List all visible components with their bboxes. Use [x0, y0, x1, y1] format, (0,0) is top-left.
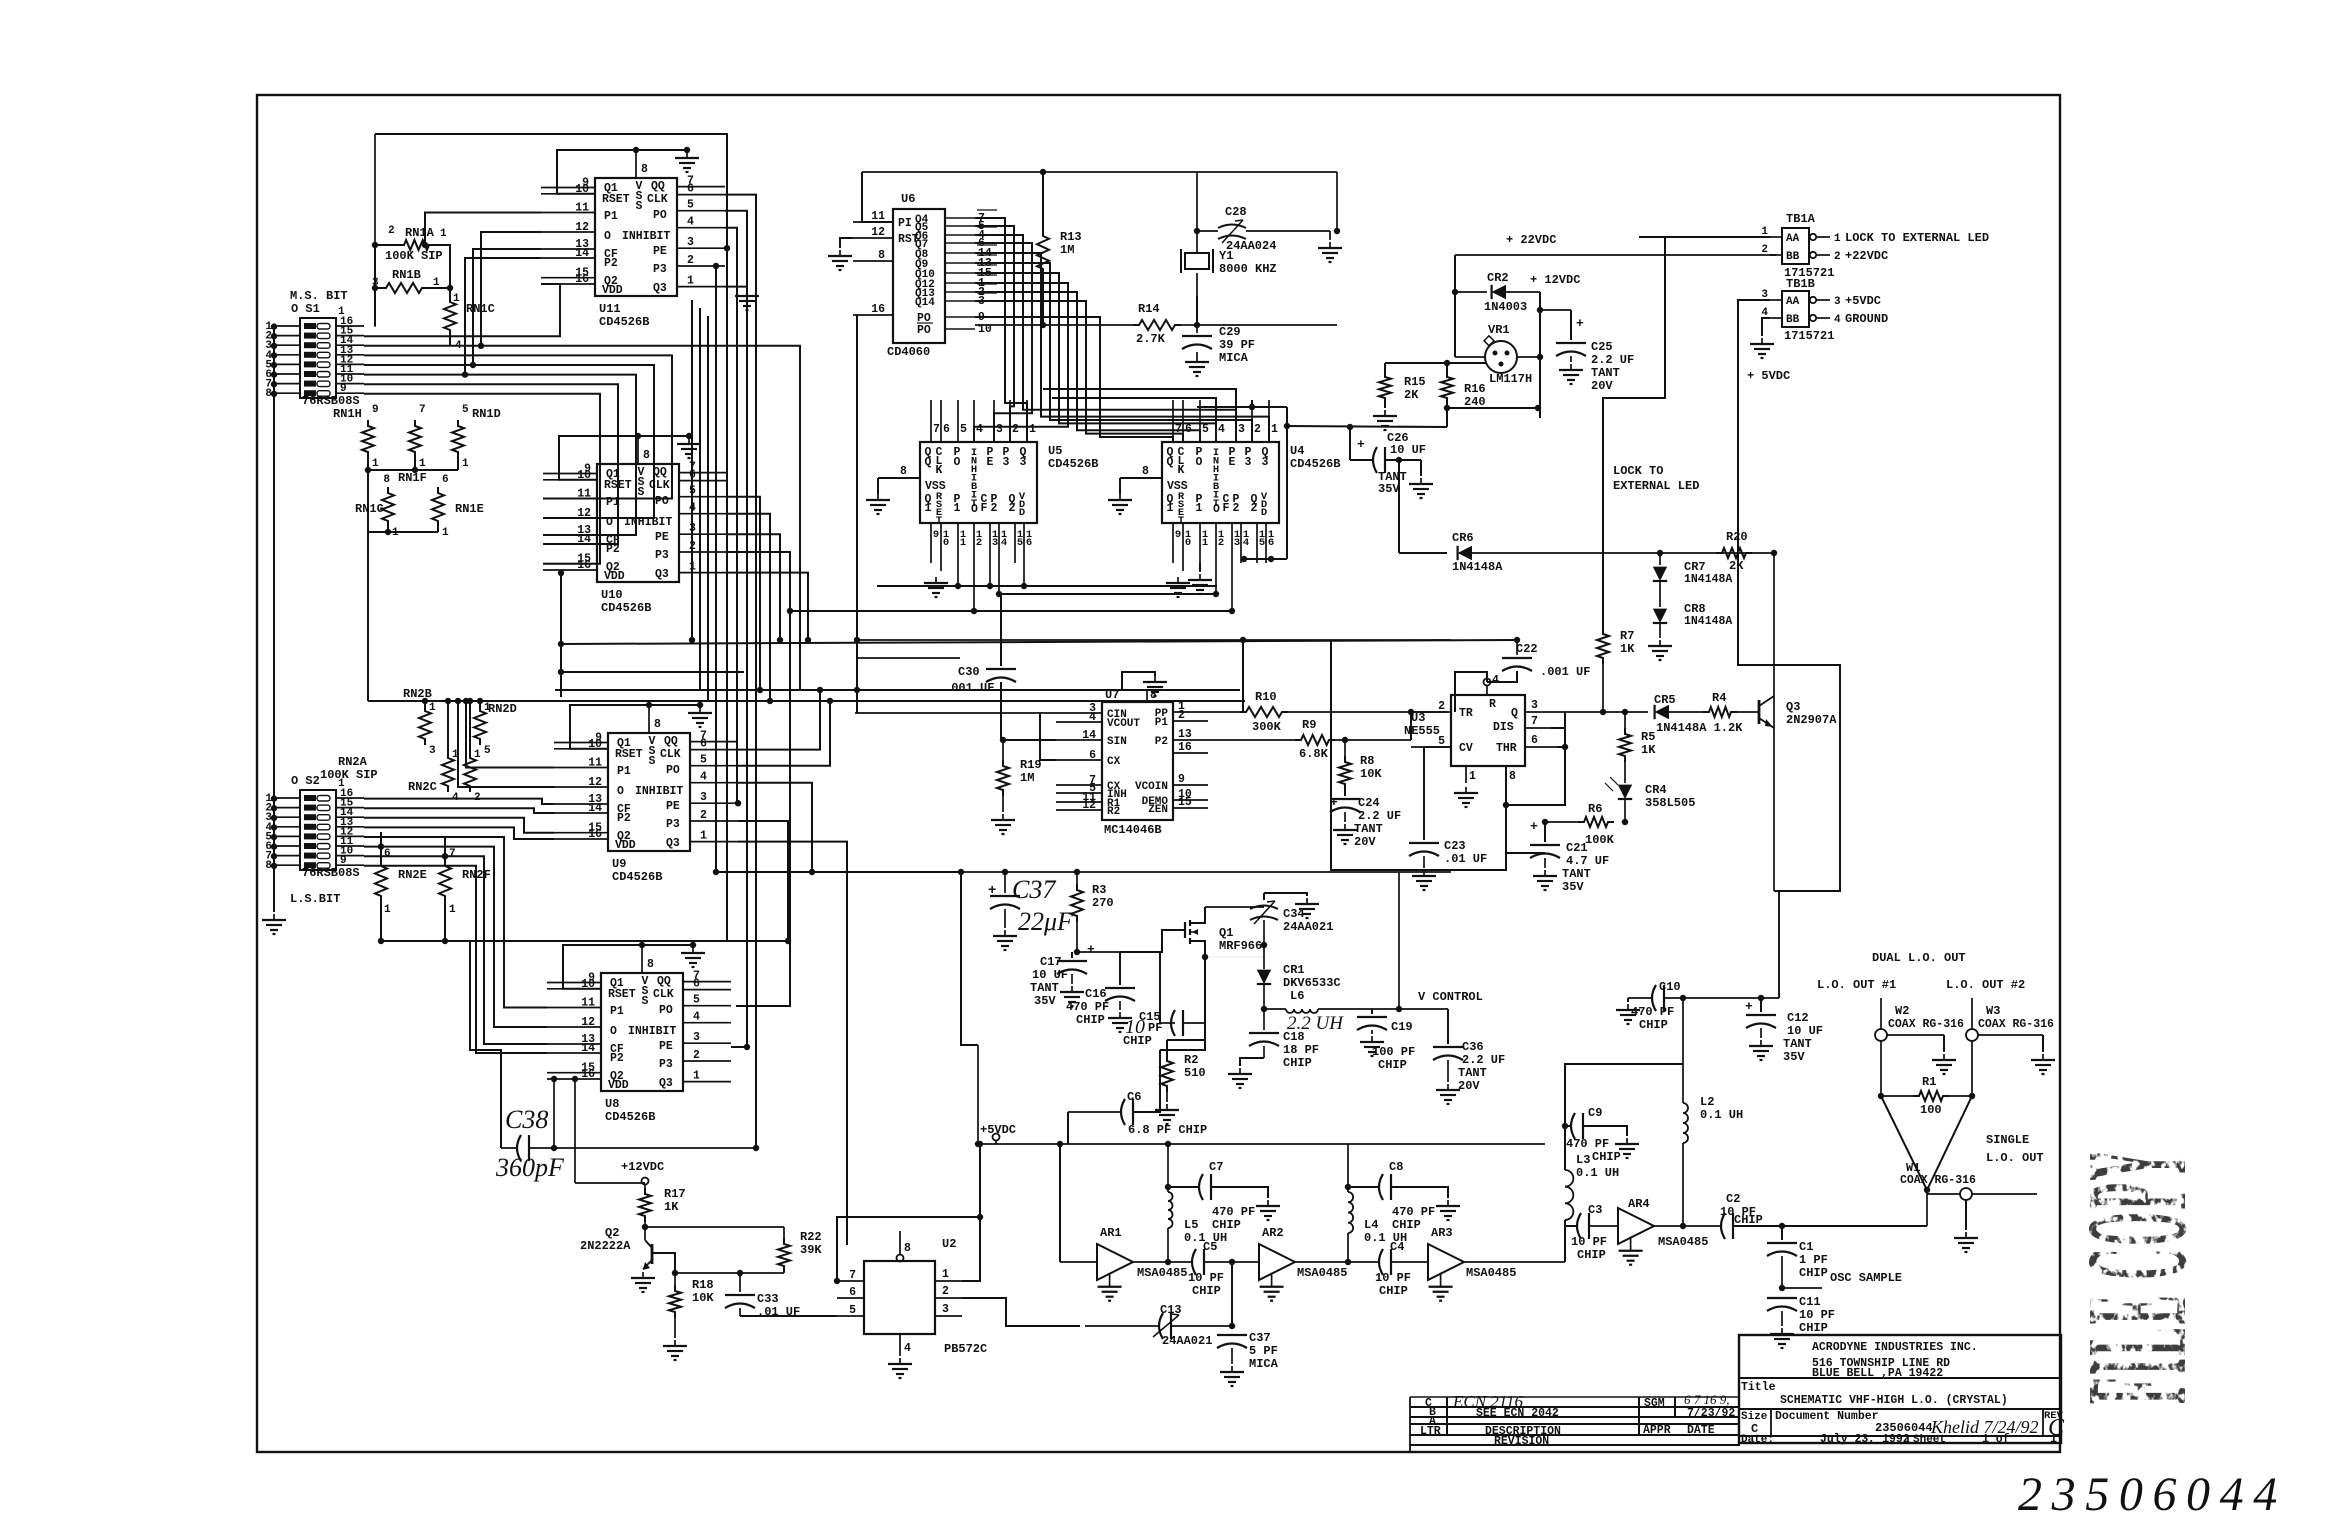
svg-text:Q: Q — [1167, 456, 1174, 469]
svg-text:AA: AA — [1786, 296, 1800, 308]
svg-text:TANT: TANT — [1030, 981, 1059, 995]
svg-text:O: O — [954, 456, 961, 469]
svg-text:DATE: DATE — [1687, 1424, 1715, 1437]
svg-text:2: 2 — [991, 502, 998, 515]
svg-text:CHIP: CHIP — [1378, 1058, 1407, 1072]
svg-text:R18: R18 — [692, 1278, 714, 1292]
svg-text:C10: C10 — [1659, 980, 1681, 994]
svg-text:R2: R2 — [1184, 1053, 1198, 1067]
svg-text:CD4060: CD4060 — [887, 345, 930, 359]
svg-text:1N4148A 1.2K: 1N4148A 1.2K — [1656, 721, 1743, 735]
svg-text:TANT: TANT — [1354, 822, 1383, 836]
svg-text:R19: R19 — [1020, 758, 1042, 772]
svg-text:CHIP: CHIP — [1799, 1266, 1828, 1280]
svg-text:1: 1 — [1202, 537, 1208, 549]
svg-text:P3: P3 — [659, 1058, 673, 1071]
svg-text:Q3: Q3 — [1786, 700, 1800, 714]
svg-text:16: 16 — [871, 303, 885, 316]
svg-text:16: 16 — [581, 1068, 595, 1081]
svg-text:12: 12 — [871, 226, 885, 239]
svg-text:QQ: QQ — [651, 180, 665, 193]
svg-text:MICA: MICA — [1249, 1357, 1279, 1371]
svg-text:CD4526B: CD4526B — [612, 870, 662, 884]
svg-text:P2: P2 — [617, 812, 631, 825]
svg-text:1: 1 — [960, 537, 966, 549]
svg-text:24AA021: 24AA021 — [1162, 1334, 1212, 1348]
svg-text:CHIP: CHIP — [1076, 1013, 1105, 1027]
svg-text:Q1: Q1 — [1219, 926, 1233, 940]
svg-text:2N2907A: 2N2907A — [1786, 713, 1837, 727]
svg-text:CR4: CR4 — [1645, 783, 1667, 797]
svg-text:300K: 300K — [1252, 720, 1282, 734]
svg-text:VCOUT: VCOUT — [1107, 718, 1140, 730]
svg-text:2: 2 — [1178, 709, 1185, 722]
svg-text:3: 3 — [1245, 456, 1252, 469]
svg-text:CLK: CLK — [660, 748, 681, 761]
svg-text:CHIP: CHIP — [1639, 1018, 1668, 1032]
svg-text:+22VDC: +22VDC — [1845, 249, 1888, 263]
svg-text:C16: C16 — [1085, 987, 1107, 1001]
svg-text:R: R — [1489, 698, 1496, 711]
svg-text:+: + — [1357, 437, 1365, 452]
svg-text:CR7: CR7 — [1684, 560, 1706, 574]
svg-text:270: 270 — [1092, 896, 1114, 910]
svg-text:LTR: LTR — [1420, 1425, 1441, 1438]
svg-text:1K: 1K — [664, 1200, 679, 1214]
svg-text:CHIP: CHIP — [1392, 1218, 1421, 1232]
svg-text:July 23, 1992: July 23, 1992 — [1820, 1433, 1910, 1446]
svg-text:P1: P1 — [617, 765, 631, 778]
svg-text:C5: C5 — [1203, 1240, 1217, 1254]
svg-text:TB1B: TB1B — [1786, 277, 1815, 291]
svg-text:TANT: TANT — [1562, 867, 1591, 881]
svg-text:C22: C22 — [1516, 642, 1538, 656]
svg-text:8: 8 — [904, 1242, 911, 1255]
svg-text:RN2D: RN2D — [488, 702, 517, 716]
svg-text:SEE ECN 2042: SEE ECN 2042 — [1476, 1407, 1559, 1420]
svg-text:2K: 2K — [1729, 559, 1744, 573]
svg-text:CHIP: CHIP — [1799, 1321, 1828, 1335]
svg-text:S: S — [649, 755, 656, 768]
svg-text:C1: C1 — [1799, 1240, 1813, 1254]
svg-text:10 UF: 10 UF — [1787, 1024, 1823, 1038]
svg-text:REVISION: REVISION — [1494, 1435, 1549, 1448]
svg-text:2: 2 — [1254, 423, 1261, 436]
svg-text:EXTERNAL LED: EXTERNAL LED — [1613, 479, 1699, 493]
svg-text:Q3: Q3 — [655, 568, 669, 581]
svg-text:QQ: QQ — [653, 466, 667, 479]
svg-text:8: 8 — [654, 718, 661, 731]
svg-text:COAX RG-316: COAX RG-316 — [1888, 1018, 1964, 1031]
svg-text:4: 4 — [1492, 674, 1499, 687]
svg-text:K: K — [936, 464, 943, 477]
svg-text:7: 7 — [419, 404, 426, 416]
svg-text:2N2222A: 2N2222A — [580, 1239, 631, 1253]
svg-text:+: + — [1330, 795, 1338, 810]
svg-text:Q2: Q2 — [605, 1226, 619, 1240]
svg-text:1: 1 — [1167, 502, 1174, 515]
svg-text:R3: R3 — [1092, 883, 1106, 897]
svg-text:7/23/92: 7/23/92 — [1687, 1407, 1735, 1420]
svg-text:W1: W1 — [1906, 1161, 1920, 1175]
svg-text:CHIP: CHIP — [1577, 1248, 1606, 1262]
svg-text:CLK: CLK — [649, 479, 670, 492]
svg-text:MSA0485: MSA0485 — [1137, 1266, 1187, 1280]
svg-text:R9: R9 — [1302, 718, 1316, 732]
svg-text:10K: 10K — [692, 1291, 714, 1305]
svg-text:3: 3 — [700, 791, 707, 804]
svg-text:O: O — [1196, 456, 1203, 469]
svg-text:2.7K: 2.7K — [1136, 332, 1166, 346]
svg-text:+: + — [988, 883, 996, 899]
svg-text:1: 1 — [2050, 1433, 2057, 1446]
svg-text:C7: C7 — [1209, 1160, 1223, 1174]
svg-text:CHIP: CHIP — [1734, 1213, 1763, 1227]
svg-text:39 PF: 39 PF — [1219, 338, 1255, 352]
svg-text:2: 2 — [700, 809, 707, 822]
svg-text:3: 3 — [1262, 456, 1269, 469]
svg-text:CLK: CLK — [647, 193, 668, 206]
svg-text:MC14046B: MC14046B — [1104, 823, 1162, 837]
svg-text:5: 5 — [700, 754, 707, 767]
svg-text:R22: R22 — [800, 1230, 822, 1244]
svg-text:20V: 20V — [1591, 379, 1613, 393]
svg-text:L5: L5 — [1184, 1218, 1198, 1232]
svg-text:1: 1 — [429, 702, 436, 714]
svg-text:3: 3 — [996, 423, 1003, 436]
svg-text:1K: 1K — [1641, 743, 1656, 757]
svg-text:+: + — [1087, 942, 1095, 957]
svg-text:VDD: VDD — [608, 1079, 629, 1092]
svg-text:10 PF: 10 PF — [1799, 1308, 1835, 1322]
svg-text:2K: 2K — [1404, 388, 1419, 402]
svg-text:RN2A: RN2A — [338, 755, 368, 769]
svg-text:L4: L4 — [1364, 1218, 1378, 1232]
svg-text:510: 510 — [1184, 1066, 1206, 1080]
svg-text:15: 15 — [1178, 796, 1192, 809]
svg-text:CD4526B: CD4526B — [1048, 457, 1098, 471]
svg-text:8: 8 — [1509, 770, 1516, 783]
svg-text:C21: C21 — [1566, 841, 1588, 855]
svg-text:4: 4 — [1243, 537, 1249, 549]
svg-text:R17: R17 — [664, 1187, 686, 1201]
svg-text:100 PF: 100 PF — [1372, 1045, 1415, 1059]
svg-text:RN2C: RN2C — [408, 780, 437, 794]
svg-text:AR4: AR4 — [1628, 1197, 1650, 1211]
svg-text:1 of: 1 of — [1982, 1433, 2010, 1446]
svg-text:22μF: 22μF — [1018, 907, 1074, 936]
svg-text:8000 KHZ: 8000 KHZ — [1219, 262, 1277, 276]
svg-text:35V: 35V — [1562, 880, 1584, 894]
svg-text:76RSB08S: 76RSB08S — [302, 866, 360, 880]
svg-text:BLUE BELL ,PA 19422: BLUE BELL ,PA 19422 — [1812, 1367, 1943, 1380]
svg-text:6: 6 — [1531, 734, 1538, 747]
svg-text:GROUND: GROUND — [1845, 312, 1888, 326]
svg-text:1 PF: 1 PF — [1799, 1253, 1828, 1267]
svg-text:MSA0485: MSA0485 — [1297, 1266, 1347, 1280]
svg-text:C23: C23 — [1444, 839, 1466, 853]
svg-text:L.O. OUT: L.O. OUT — [1986, 1151, 2044, 1165]
svg-text:1: 1 — [440, 228, 447, 240]
svg-text:5 PF: 5 PF — [1249, 1344, 1278, 1358]
svg-text:1K: 1K — [1620, 642, 1635, 656]
svg-text:U2: U2 — [942, 1237, 956, 1251]
svg-text:PE: PE — [653, 245, 667, 258]
svg-text:5: 5 — [849, 1304, 856, 1317]
svg-text:1: 1 — [449, 904, 456, 916]
svg-text:8: 8 — [1142, 465, 1149, 478]
svg-text:9: 9 — [1178, 773, 1185, 786]
svg-text:2: 2 — [693, 1049, 700, 1062]
svg-text:DKV6533C: DKV6533C — [1283, 976, 1341, 990]
svg-text:R14: R14 — [1138, 302, 1160, 316]
svg-text:6: 6 — [700, 738, 707, 751]
svg-text:1: 1 — [1029, 423, 1036, 436]
svg-text:Date:: Date: — [1741, 1434, 1774, 1446]
svg-text:C38: C38 — [505, 1105, 548, 1134]
svg-text:76RSB08S: 76RSB08S — [302, 394, 360, 408]
svg-text:1: 1 — [462, 458, 469, 470]
svg-text:1: 1 — [1834, 233, 1841, 245]
svg-text:L3: L3 — [1576, 1153, 1590, 1167]
svg-text:O S2: O S2 — [291, 774, 320, 788]
svg-text:D: D — [1019, 507, 1025, 519]
svg-text:1: 1 — [687, 275, 694, 288]
svg-text:F: F — [981, 502, 988, 515]
svg-text:2: 2 — [388, 225, 395, 237]
svg-text:2: 2 — [1233, 502, 1240, 515]
svg-text:1N4003: 1N4003 — [1484, 300, 1527, 314]
svg-text:Q14: Q14 — [915, 297, 935, 309]
svg-text:100K: 100K — [1585, 833, 1615, 847]
svg-text:2: 2 — [1251, 502, 1258, 515]
svg-text:Title: Title — [1741, 1381, 1776, 1394]
svg-text:M.S. BIT: M.S. BIT — [290, 289, 348, 303]
svg-text:1N4148A: 1N4148A — [1452, 560, 1503, 574]
svg-text:1: 1 — [925, 502, 932, 515]
svg-text:0.1 UH: 0.1 UH — [1700, 1108, 1743, 1122]
svg-text:3: 3 — [687, 236, 694, 249]
svg-text:2: 2 — [1761, 244, 1768, 256]
svg-text:6: 6 — [849, 1286, 856, 1299]
svg-text:PO: PO — [659, 1004, 673, 1017]
svg-text:O: O — [604, 230, 611, 243]
svg-text:P2: P2 — [604, 257, 618, 270]
svg-text:E: E — [987, 456, 994, 469]
svg-text:INHIBIT: INHIBIT — [628, 1025, 676, 1038]
svg-text:CR8: CR8 — [1684, 602, 1706, 616]
svg-text:RSET: RSET — [602, 193, 630, 206]
svg-text:.001 UF: .001 UF — [1540, 665, 1590, 679]
svg-text:DIS: DIS — [1493, 721, 1514, 734]
svg-text:APPR: APPR — [1643, 1424, 1671, 1437]
svg-text:20V: 20V — [1354, 835, 1376, 849]
svg-text:C12: C12 — [1787, 1011, 1809, 1025]
svg-text:PF: PF — [1148, 1021, 1162, 1035]
svg-text:0: 0 — [1185, 537, 1191, 549]
svg-text:LOCK TO EXTERNAL LED: LOCK TO EXTERNAL LED — [1845, 231, 1989, 245]
svg-text:CD4526B: CD4526B — [1290, 457, 1340, 471]
svg-text:14: 14 — [588, 802, 602, 815]
svg-text:CD4526B: CD4526B — [601, 601, 651, 615]
svg-text:2: 2 — [1834, 251, 1841, 263]
svg-text:K: K — [1178, 464, 1185, 477]
svg-text:TANT: TANT — [1783, 1037, 1812, 1051]
svg-text:CR5: CR5 — [1654, 693, 1676, 707]
svg-text:3: 3 — [1020, 456, 1027, 469]
svg-text:10 UF: 10 UF — [1390, 443, 1426, 457]
svg-text:C11: C11 — [1799, 1295, 1821, 1309]
svg-text:ACRODYNE INDUSTRIES INC.: ACRODYNE INDUSTRIES INC. — [1812, 1341, 1978, 1354]
svg-text:Q3: Q3 — [659, 1077, 673, 1090]
svg-text:8: 8 — [643, 449, 650, 462]
svg-text:4: 4 — [1089, 711, 1096, 724]
svg-text:P3: P3 — [666, 818, 680, 831]
svg-text:+: + — [1530, 819, 1538, 834]
svg-text:U9: U9 — [612, 857, 626, 871]
svg-text:6: 6 — [1089, 749, 1096, 762]
svg-text:24AA021: 24AA021 — [1283, 920, 1333, 934]
svg-text:4: 4 — [1834, 314, 1841, 326]
svg-text:CD4526B: CD4526B — [599, 315, 649, 329]
svg-text:6: 6 — [1268, 537, 1274, 549]
svg-text:1: 1 — [384, 904, 391, 916]
svg-text:13: 13 — [1178, 728, 1192, 741]
svg-text:PO: PO — [917, 324, 931, 337]
svg-text:BB: BB — [1786, 314, 1800, 326]
svg-text:Q3: Q3 — [666, 837, 680, 850]
svg-text:7: 7 — [449, 848, 456, 860]
svg-text:2.2 UF: 2.2 UF — [1591, 353, 1634, 367]
svg-text:LOCK TO: LOCK TO — [1613, 464, 1663, 478]
svg-text:MICA: MICA — [1219, 351, 1249, 365]
svg-text:6: 6 — [687, 183, 694, 196]
svg-text:SGM: SGM — [1644, 1397, 1665, 1410]
svg-text:L.S.BIT: L.S.BIT — [290, 892, 340, 906]
svg-text:1M: 1M — [1020, 771, 1034, 785]
svg-text:U6: U6 — [901, 192, 915, 206]
svg-text:C37: C37 — [1012, 875, 1056, 904]
svg-text:2.2 UF: 2.2 UF — [1358, 809, 1401, 823]
svg-text:C4: C4 — [1390, 1240, 1404, 1254]
svg-text:R2: R2 — [1107, 806, 1120, 818]
svg-text:7: 7 — [849, 1269, 856, 1282]
svg-text:V CONTROL: V CONTROL — [1418, 990, 1483, 1004]
svg-text:35V: 35V — [1378, 482, 1400, 496]
svg-text:+12VDC: +12VDC — [621, 1160, 664, 1174]
svg-text:9: 9 — [933, 529, 939, 541]
svg-text:L2: L2 — [1700, 1095, 1714, 1109]
svg-text:CHIP: CHIP — [1212, 1218, 1241, 1232]
svg-text:SINGLE: SINGLE — [1986, 1133, 2029, 1147]
svg-text:8: 8 — [900, 465, 907, 478]
svg-text:5: 5 — [1259, 537, 1265, 549]
svg-text:8: 8 — [383, 474, 390, 486]
svg-text:R7: R7 — [1620, 629, 1634, 643]
svg-text:R4: R4 — [1712, 691, 1726, 705]
svg-text:CHIP: CHIP — [1379, 1284, 1408, 1298]
svg-text:Q3: Q3 — [653, 282, 667, 295]
svg-text:S: S — [638, 486, 645, 499]
svg-text:C36: C36 — [1462, 1040, 1484, 1054]
svg-text:2: 2 — [1012, 423, 1019, 436]
svg-text:+5VDC: +5VDC — [1845, 294, 1881, 308]
svg-text:VR1: VR1 — [1488, 323, 1510, 337]
svg-text:CR1: CR1 — [1283, 963, 1305, 977]
svg-text:FILE COPY: FILE COPY — [2058, 1147, 2218, 1404]
svg-text:+: + — [1745, 999, 1753, 1014]
svg-text:RSET: RSET — [615, 748, 643, 761]
svg-text:3: 3 — [1003, 456, 1010, 469]
svg-text:Q: Q — [925, 456, 932, 469]
svg-text:.01 UF: .01 UF — [757, 1305, 800, 1319]
svg-text:U4: U4 — [1290, 444, 1304, 458]
svg-text:470 PF: 470 PF — [1566, 1137, 1609, 1151]
svg-text:D: D — [1261, 507, 1267, 519]
svg-text:RN2B: RN2B — [403, 687, 432, 701]
svg-text:1: 1 — [372, 458, 379, 470]
svg-text:COAX RG-316: COAX RG-316 — [1978, 1018, 2054, 1031]
svg-text:NE555: NE555 — [1404, 724, 1440, 738]
svg-text:PO: PO — [655, 495, 669, 508]
svg-text:THR: THR — [1496, 742, 1517, 755]
svg-text:Document Number: Document Number — [1775, 1410, 1879, 1423]
svg-text:1: 1 — [338, 306, 345, 318]
svg-text:2: 2 — [1009, 502, 1016, 515]
svg-text:3: 3 — [693, 1031, 700, 1044]
svg-text:C33: C33 — [757, 1292, 779, 1306]
svg-text:3: 3 — [429, 745, 436, 757]
svg-text:PO: PO — [666, 764, 680, 777]
svg-text:3: 3 — [1531, 699, 1538, 712]
svg-text:11: 11 — [575, 202, 589, 215]
svg-text:L.O. OUT #2: L.O. OUT #2 — [1946, 978, 2025, 992]
svg-text:1715721: 1715721 — [1784, 329, 1834, 343]
svg-text:6.8K: 6.8K — [1299, 747, 1329, 761]
svg-text:1: 1 — [1469, 770, 1476, 783]
svg-text:+ 12VDC: + 12VDC — [1530, 273, 1580, 287]
svg-text:S: S — [636, 200, 643, 213]
svg-text:20V: 20V — [1458, 1079, 1480, 1093]
svg-text:C2: C2 — [1726, 1192, 1740, 1206]
svg-text:5: 5 — [462, 404, 469, 416]
svg-text:RN1H: RN1H — [333, 407, 362, 421]
svg-text:12: 12 — [575, 221, 589, 234]
svg-text:R13: R13 — [1060, 230, 1082, 244]
svg-text:18 PF: 18 PF — [1283, 1043, 1319, 1057]
svg-text:RN1A: RN1A — [405, 226, 435, 240]
svg-text:2: 2 — [1438, 700, 1445, 713]
svg-text:6: 6 — [442, 474, 449, 486]
svg-text:100: 100 — [1920, 1103, 1942, 1117]
svg-text:6: 6 — [384, 848, 391, 860]
svg-text:O: O — [610, 1025, 617, 1038]
svg-text:CHIP: CHIP — [1592, 1150, 1621, 1164]
svg-text:C8: C8 — [1389, 1160, 1403, 1174]
svg-text:CR6: CR6 — [1452, 531, 1474, 545]
svg-text:P1: P1 — [604, 210, 618, 223]
svg-text:8: 8 — [878, 249, 885, 262]
svg-text:RSET: RSET — [608, 988, 636, 1001]
svg-text:1M: 1M — [1060, 243, 1074, 257]
svg-text:SIN: SIN — [1107, 736, 1127, 748]
svg-text:16: 16 — [577, 559, 591, 572]
svg-text:7: 7 — [1531, 715, 1538, 728]
svg-text:RN2E: RN2E — [398, 868, 427, 882]
svg-text:O: O — [971, 503, 978, 516]
svg-text:MRF966: MRF966 — [1219, 939, 1262, 953]
svg-text:6 7 16 9,: 6 7 16 9, — [1684, 1392, 1730, 1407]
